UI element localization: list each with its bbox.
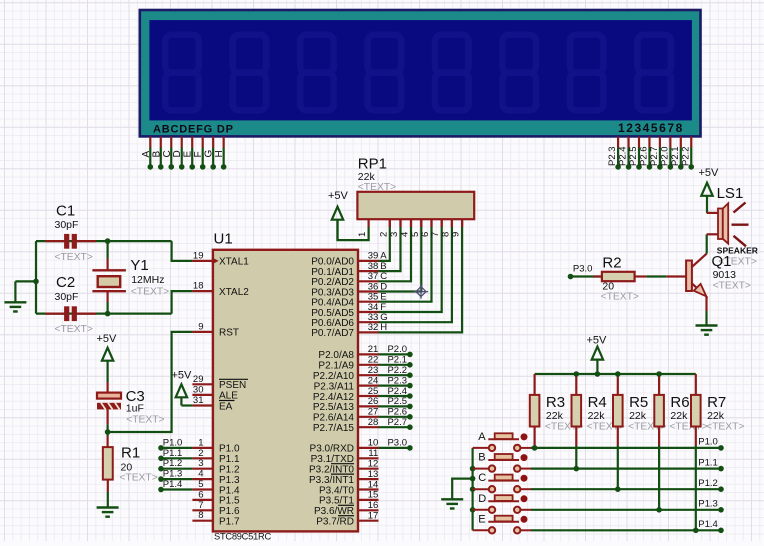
svg-text:12MHz: 12MHz	[131, 274, 164, 286]
svg-text:22: 22	[368, 355, 379, 366]
node P1.3 left	[158, 476, 164, 482]
pin 24 P2.3/A11	[358, 385, 379, 387]
node P2.7	[657, 164, 663, 170]
svg-text:3: 3	[198, 458, 203, 469]
resistor pack RP1 body	[357, 192, 474, 219]
resistor R5	[617, 374, 619, 395]
svg-text:P1.1: P1.1	[163, 448, 183, 459]
node P2.1	[678, 164, 684, 170]
node P1.1 right	[718, 466, 724, 472]
pin 10 P3.0/RXD	[358, 447, 379, 449]
wire net P1.2 left	[161, 468, 192, 470]
ground left	[4, 301, 26, 303]
transistor Q1	[666, 275, 686, 277]
node P2.1	[407, 362, 413, 368]
wire button bus	[472, 448, 474, 530]
wire P1.2 row	[531, 488, 721, 490]
wire net B to RP1 pin 3	[379, 227, 401, 271]
wire net P2.0	[379, 353, 410, 355]
svg-text:RST: RST	[219, 328, 239, 339]
RP1 pin 3 stub	[399, 219, 401, 227]
wire net P2.2	[379, 374, 410, 376]
wire RST net	[108, 332, 193, 432]
node P2.0	[668, 164, 674, 170]
svg-text:9: 9	[451, 232, 462, 237]
node P2.6	[407, 414, 413, 420]
svg-text:XTAL1: XTAL1	[219, 257, 249, 268]
RP1 pin 4 stub	[410, 219, 412, 227]
pin 12 P3.2/INT0	[358, 468, 379, 470]
wire left bus C1-C2	[35, 241, 37, 314]
svg-text:P2.5: P2.5	[387, 396, 407, 407]
resistor R7	[695, 374, 697, 395]
svg-text:R7: R7	[707, 394, 726, 411]
svg-text:2: 2	[378, 232, 389, 237]
pin 15 P3.5/T1	[358, 499, 379, 501]
node R4 bottom junction	[574, 466, 580, 472]
svg-text:ABCDEFG DP: ABCDEFG DP	[153, 123, 234, 135]
power +5V for C3	[102, 348, 113, 361]
pin 35 P0.4/AD4	[358, 301, 379, 303]
svg-text:22k: 22k	[588, 410, 606, 422]
pin 30 ALE	[192, 394, 213, 396]
svg-text:P1.6: P1.6	[219, 506, 240, 517]
svg-text:11: 11	[368, 448, 378, 459]
node P1.0 left	[158, 445, 164, 451]
pin 6 P1.5	[192, 499, 213, 501]
ground under R1	[97, 506, 119, 508]
svg-text:30pF: 30pF	[55, 219, 79, 231]
svg-text:P1.3: P1.3	[219, 475, 240, 486]
wire C2 row	[36, 313, 172, 315]
wire net D to RP1 pin 5	[379, 227, 422, 292]
svg-text:C1: C1	[56, 203, 75, 220]
wire net F to RP1 pin 7	[379, 227, 442, 312]
resistor R4	[575, 374, 577, 395]
svg-text:<TEXT>: <TEXT>	[131, 287, 169, 298]
pin 27 P2.6/A14	[358, 416, 379, 418]
svg-text:D: D	[478, 493, 486, 505]
node P2.0	[407, 352, 413, 358]
wire net P2.6	[379, 416, 410, 418]
svg-text:P1.3: P1.3	[698, 499, 718, 510]
display segment pin wire G	[212, 137, 214, 148]
svg-text:31: 31	[193, 395, 204, 406]
svg-text:P3.0/RXD: P3.0/RXD	[310, 444, 354, 455]
svg-text:P2.4: P2.4	[618, 146, 629, 166]
node P2.3	[615, 164, 621, 170]
svg-text:7: 7	[198, 500, 203, 511]
mcu U1 body	[213, 250, 358, 532]
node button bus junction	[470, 466, 476, 472]
svg-text:R1: R1	[121, 445, 140, 462]
pin 29 PSEN	[192, 383, 213, 385]
RP1 pin 2 stub	[389, 219, 391, 227]
wire net P3.0	[379, 447, 410, 449]
svg-text:A: A	[141, 151, 152, 158]
svg-text:+5V: +5V	[172, 369, 193, 381]
svg-text:P1.2: P1.2	[163, 458, 183, 469]
capacitor C2	[45, 313, 64, 315]
pin 14 P3.4/T0	[358, 488, 379, 490]
pin 11 P3.1/TXD	[358, 457, 379, 459]
svg-text:1: 1	[357, 232, 368, 237]
node R5 top junction	[615, 371, 621, 377]
display segment pin wire H	[223, 137, 225, 148]
svg-text:29: 29	[193, 374, 204, 385]
pin 3 P1.2	[192, 468, 213, 470]
wire ground stub	[15, 280, 36, 282]
svg-text:H: H	[214, 150, 225, 157]
display segment pin wire D	[181, 137, 183, 148]
node R6 bottom junction	[656, 507, 662, 513]
display segment pin wire F	[202, 137, 204, 148]
svg-text:8: 8	[198, 510, 203, 521]
node P1.3 right	[718, 507, 724, 513]
svg-text:E: E	[183, 151, 194, 158]
RP1 pin 9 stub	[461, 219, 463, 227]
display segment pin wire E	[191, 137, 193, 148]
pin 2 P1.1	[192, 457, 213, 459]
pin 8 P1.7	[192, 520, 213, 522]
pin 37 P0.2/AD2	[358, 280, 379, 282]
power +5V for resistors	[592, 347, 603, 360]
wire net P1.0 left	[161, 447, 192, 449]
pin 25 P2.4/A12	[358, 395, 379, 397]
svg-text:P2.5: P2.5	[628, 146, 639, 166]
svg-text:12: 12	[368, 459, 379, 470]
svg-text:P3.0: P3.0	[573, 264, 593, 275]
svg-text:<TEXT>: <TEXT>	[601, 292, 639, 303]
svg-text:6: 6	[198, 489, 203, 500]
wire C1 row	[36, 240, 172, 242]
svg-text:R6: R6	[670, 394, 689, 411]
node A	[148, 164, 154, 170]
svg-text:P2.6/A14: P2.6/A14	[313, 413, 355, 424]
svg-text:P2.3: P2.3	[387, 375, 407, 386]
svg-text:21: 21	[368, 344, 379, 355]
svg-text:P3.7/RD: P3.7/RD	[316, 517, 354, 528]
RP1 pin 8 stub	[451, 219, 453, 227]
node P2.2	[407, 372, 413, 378]
node Y1 bottom junction	[105, 311, 111, 317]
svg-text:LS1: LS1	[717, 185, 744, 202]
svg-text:P0.7/AD7: P0.7/AD7	[311, 328, 354, 339]
svg-text:U1: U1	[214, 231, 233, 248]
wire net P2.1	[379, 364, 410, 366]
svg-text:4: 4	[198, 469, 203, 480]
wire net C to RP1 pin 4	[379, 227, 412, 281]
svg-text:22k: 22k	[629, 410, 647, 422]
svg-text:SPEAKER: SPEAKER	[717, 245, 758, 255]
svg-text:D: D	[172, 150, 183, 157]
pin 1 P1.0	[192, 447, 213, 449]
node +5V rail stem	[595, 371, 601, 377]
svg-text:C2: C2	[56, 274, 75, 291]
display digit pin wire P2.4	[627, 137, 629, 148]
svg-text:P1.2: P1.2	[698, 478, 718, 489]
display digit pin wire P2.0	[669, 137, 671, 148]
svg-text:P1.2: P1.2	[219, 465, 240, 476]
wire net P2.5	[379, 405, 410, 407]
svg-text:P3.4/T0: P3.4/T0	[319, 485, 354, 496]
pin 17 P3.7/RD	[358, 520, 379, 522]
svg-text:18: 18	[193, 281, 204, 292]
wire net E to RP1 pin 6	[379, 227, 432, 302]
svg-text:14: 14	[368, 479, 379, 490]
RP1 pin 1 stub	[368, 219, 370, 227]
svg-text:P2.1: P2.1	[387, 355, 407, 366]
node H	[221, 164, 227, 170]
svg-text:P2.0: P2.0	[659, 146, 670, 166]
svg-text:22k: 22k	[670, 410, 688, 422]
node C	[168, 164, 174, 170]
pin 13 P3.3/INT1	[358, 478, 379, 480]
resistor R3	[533, 374, 535, 395]
RP1 pin 5 stub	[420, 219, 422, 227]
display digit pin wire P2.6	[648, 137, 650, 148]
svg-text:Y1: Y1	[130, 257, 148, 274]
svg-text:30: 30	[193, 384, 204, 395]
svg-text:P2.4: P2.4	[387, 386, 407, 397]
svg-text:R2: R2	[602, 255, 621, 272]
svg-text:19: 19	[193, 250, 204, 261]
wire +5V rail for R3-R7	[535, 373, 696, 375]
display digit pin wire P2.1	[680, 137, 682, 148]
wire EA to +5V	[181, 404, 192, 406]
svg-text:+5V: +5V	[587, 335, 608, 347]
capacitor C1	[45, 240, 64, 242]
wire net H to RP1 pin 9	[379, 227, 463, 332]
svg-text:P2.4/A12: P2.4/A12	[313, 392, 355, 403]
speaker LS1	[707, 212, 718, 214]
resistor R2	[593, 275, 602, 277]
svg-text:15: 15	[368, 490, 379, 501]
svg-text:P2.5/A13: P2.5/A13	[313, 402, 355, 413]
svg-text:13: 13	[368, 469, 379, 480]
wire C3 to junction	[106, 409, 108, 424]
svg-text:P1.0: P1.0	[219, 444, 240, 455]
svg-text:G: G	[204, 150, 215, 158]
svg-text:C: C	[478, 472, 486, 484]
wire P1.1 row	[531, 468, 721, 470]
svg-text:<TEXT>: <TEXT>	[669, 422, 707, 433]
svg-text:30pF: 30pF	[55, 291, 79, 303]
node R3 bottom junction	[532, 445, 538, 451]
svg-text:P2.6: P2.6	[638, 146, 649, 166]
svg-text:P1.0: P1.0	[163, 437, 183, 448]
svg-text:P2.0/A8: P2.0/A8	[318, 350, 354, 361]
svg-text:P2.7: P2.7	[387, 417, 407, 428]
svg-text:B: B	[151, 151, 162, 158]
display segment pin wire C	[170, 137, 172, 148]
RP1 pin 7 stub	[441, 219, 443, 227]
resistor R1	[103, 447, 113, 480]
display segment pin wire B	[160, 137, 162, 148]
svg-text:28: 28	[368, 417, 379, 428]
pin 36 P0.3/AD3	[358, 290, 379, 292]
node R5 bottom junction	[615, 486, 621, 492]
wire P3.0 to R2	[571, 275, 602, 277]
power +5V for EA	[176, 384, 187, 397]
svg-text:P2.2: P2.2	[387, 365, 407, 376]
wire net P1.3 left	[161, 478, 192, 480]
display ghost digits	[165, 35, 671, 111]
pin 32 P0.7/AD7	[358, 331, 379, 333]
svg-text:P2.3/A11: P2.3/A11	[314, 381, 355, 392]
svg-text:C: C	[162, 150, 173, 157]
wire P1.0 row	[531, 447, 721, 449]
node P1.1 left	[158, 456, 164, 462]
wire C1 to XTAL1	[172, 241, 193, 261]
node P2.2	[688, 164, 694, 170]
wire R2 to Q1 base	[646, 275, 666, 277]
ground for buttons	[441, 498, 463, 500]
pin 7 P1.6	[192, 509, 213, 511]
svg-text:9013: 9013	[713, 269, 737, 281]
node P2.6	[647, 164, 653, 170]
svg-text:P2.1/A9: P2.1/A9	[318, 361, 354, 372]
crystal Y1	[92, 269, 126, 271]
svg-text:9: 9	[198, 321, 203, 332]
wire net G to RP1 pin 8	[379, 227, 452, 322]
svg-text:P1.4: P1.4	[163, 479, 183, 490]
node B	[158, 164, 164, 170]
svg-text:R5: R5	[629, 394, 648, 411]
svg-text:E: E	[478, 513, 485, 525]
svg-text:P3.0: P3.0	[387, 438, 407, 449]
node F	[200, 164, 206, 170]
pin 23 P2.2/A10	[358, 374, 379, 376]
svg-text:P2.2/A10: P2.2/A10	[313, 371, 355, 382]
svg-text:P2.1: P2.1	[670, 146, 681, 166]
svg-text:P1.1: P1.1	[698, 457, 718, 468]
svg-text:R4: R4	[588, 394, 607, 411]
node D	[179, 164, 185, 170]
svg-text:P2.0: P2.0	[387, 344, 407, 355]
origin marker	[414, 284, 428, 298]
node C3-R1 junction	[105, 429, 111, 435]
pin 38 P0.1/AD1	[358, 270, 379, 272]
svg-text:<TEXT>: <TEXT>	[706, 422, 744, 433]
wire R1 to ground	[107, 480, 109, 492]
pin 21 P2.0/A8	[358, 353, 379, 355]
svg-text:P2.7/A15: P2.7/A15	[313, 423, 355, 434]
node G	[210, 164, 216, 170]
svg-text:PSEN: PSEN	[219, 380, 246, 391]
svg-text:1uF: 1uF	[126, 402, 144, 414]
node P2.4	[407, 393, 413, 399]
node P2.5	[407, 404, 413, 410]
svg-text:XTAL2: XTAL2	[219, 287, 249, 298]
pin 5 P1.4	[192, 488, 213, 490]
wire bus to ground	[452, 479, 472, 499]
node R6 top junction	[656, 371, 662, 377]
ground under Q1	[696, 324, 718, 326]
svg-text:P2.6: P2.6	[387, 407, 407, 418]
pin 33 P0.6/AD6	[358, 321, 379, 323]
svg-text:23: 23	[368, 365, 379, 376]
display digit pin wire P2.7	[659, 137, 661, 148]
pin 18 XTAL2	[192, 290, 213, 292]
node P3.0 at R2	[568, 274, 574, 280]
svg-text:24: 24	[368, 375, 379, 386]
node P2.3	[407, 383, 413, 389]
node P1.2 left	[158, 466, 164, 472]
pin 4 P1.3	[192, 478, 213, 480]
svg-text:F: F	[193, 151, 204, 157]
svg-text:EA: EA	[219, 401, 233, 412]
svg-text:+5V: +5V	[328, 190, 349, 202]
svg-text:P2.7: P2.7	[649, 146, 660, 166]
pin 19 XTAL1	[192, 260, 213, 262]
svg-text:STC89C51RC: STC89C51RC	[214, 532, 271, 541]
pin 31 EA	[192, 404, 213, 406]
wire RP1 pin1 to +5V	[338, 220, 369, 240]
node R7 bottom junction	[693, 528, 699, 534]
node P2.7	[407, 424, 413, 430]
wire net P1.4 left	[161, 488, 192, 490]
svg-text:12345678: 12345678	[618, 121, 684, 135]
svg-text:A: A	[478, 431, 486, 443]
node R4 top junction	[574, 371, 580, 377]
node P1.4 left	[158, 487, 164, 493]
node P2.5	[636, 164, 642, 170]
pin 16 P3.6/WR	[358, 509, 379, 511]
svg-text:B: B	[478, 452, 485, 464]
pin 39 P0.0/AD0	[358, 260, 379, 262]
svg-text:P1.5: P1.5	[219, 496, 240, 507]
RP1 pin 6 stub	[430, 219, 432, 227]
svg-text:P1.4: P1.4	[698, 519, 718, 530]
display segment pin wire A	[149, 137, 151, 148]
node P2.4	[626, 164, 632, 170]
display LCD1 outer body	[140, 10, 701, 136]
node Y1 top junction	[105, 238, 111, 244]
wire net P2.3	[379, 385, 410, 387]
pin 9 RST	[192, 331, 213, 333]
svg-text:<TEXT>: <TEXT>	[126, 414, 164, 425]
svg-text:26: 26	[368, 396, 379, 407]
pin 22 P2.1/A9	[358, 364, 379, 366]
node bus ground junction	[470, 476, 476, 482]
svg-text:16: 16	[368, 500, 379, 511]
svg-text:P1.1: P1.1	[219, 454, 240, 465]
node P3.0	[407, 445, 413, 451]
svg-text:22k: 22k	[707, 410, 725, 422]
wire P1.4 row	[531, 529, 721, 531]
svg-text:5: 5	[198, 479, 203, 490]
svg-text:10: 10	[368, 438, 379, 449]
wire C2 to XTAL2	[172, 291, 193, 314]
svg-text:27: 27	[368, 407, 379, 418]
pin XTAL1 arrow	[212, 257, 219, 264]
node P1.2 right	[718, 486, 724, 492]
node P1.0 right	[718, 445, 724, 451]
svg-text:P2.3: P2.3	[607, 146, 618, 166]
svg-text:32: 32	[368, 322, 379, 333]
svg-text:P1.7: P1.7	[219, 517, 240, 528]
svg-text:P1.0: P1.0	[698, 437, 718, 448]
svg-text:<TEXT>: <TEXT>	[713, 281, 751, 292]
pin 34 P0.5/AD5	[358, 311, 379, 313]
wire net P1.1 left	[161, 457, 192, 459]
svg-text:+5V: +5V	[97, 333, 118, 345]
node button bus junction	[470, 486, 476, 492]
pin 26 P2.5/A13	[358, 405, 379, 407]
svg-text:17: 17	[368, 511, 379, 522]
svg-text:R3: R3	[546, 394, 565, 411]
